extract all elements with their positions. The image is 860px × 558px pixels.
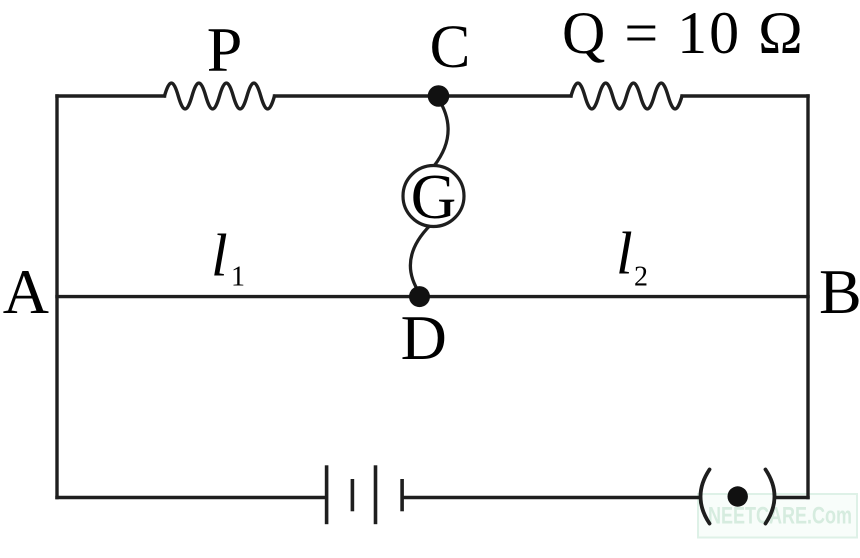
svg-text:NEETCARE.Com: NEETCARE.Com [708,503,852,530]
battery long plate 2 [374,465,378,524]
svg-text:2: 2 [634,262,648,293]
key right arc [766,470,775,524]
svg-text:P: P [207,14,243,85]
battery long plate 1 [325,465,329,524]
galvanometer wire C to G [434,99,448,166]
svg-text:l: l [616,221,633,287]
wire AB (bridge wire) [57,295,808,298]
wire top-right segment Q to corner [682,94,808,97]
svg-text:Q = 10 Ω: Q = 10 Ω [562,0,805,66]
node C dot [428,85,450,107]
wire bottom-left to battery [57,496,325,499]
resistor Q (squiggle) [571,83,682,109]
node D dot [409,286,430,307]
galvanometer wire G to D [410,226,430,294]
resistor P (squiggle) [165,83,275,109]
svg-text:G: G [411,162,457,232]
wire top-left segment A-top to resistor P [57,94,165,97]
svg-text:l: l [211,222,228,288]
key left arc [701,470,710,524]
wire right vertical [806,96,809,498]
svg-text:B: B [819,256,860,327]
wire battery to key [405,496,701,499]
battery (two cells) [327,465,403,524]
key K (tap key: arcs with ball) [701,470,775,524]
svg-text:D: D [401,302,447,373]
wire top middle between P and Q through node C [275,94,572,97]
watermark box [698,494,857,538]
svg-text:A: A [3,256,49,327]
wire key to bottom-right corner [775,496,808,499]
battery short plate 1 [351,479,355,511]
key contact ball [728,486,748,506]
svg-text:C: C [430,14,471,81]
battery short plate 2 [400,479,404,511]
svg-text:1: 1 [231,262,245,293]
wire left vertical [55,96,58,498]
galvanometer G circle [403,166,464,227]
